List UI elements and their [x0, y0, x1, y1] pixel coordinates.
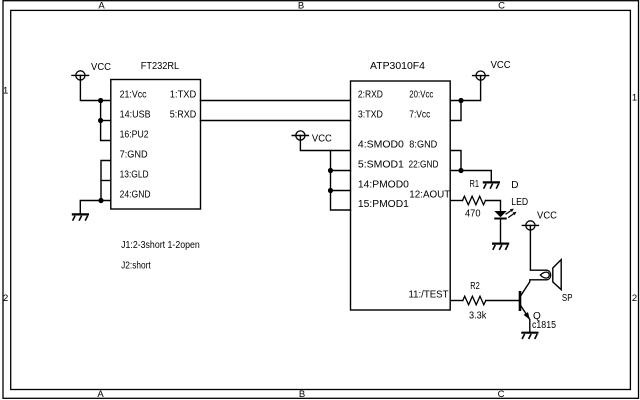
- power symbol VCC (left, for U1): [76, 71, 85, 80]
- svg-text:15:PMOD1: 15:PMOD1: [358, 199, 409, 210]
- wire VCC drop to 20:Vcc: [450, 76, 480, 101]
- junction dot U2 pin5 net: [328, 168, 333, 173]
- wire bracket 14:USB / 16:PU2 to VCC net: [101, 101, 111, 141]
- svg-text:VCC: VCC: [537, 211, 557, 222]
- svg-text:c1815: c1815: [532, 320, 556, 331]
- junction dot U2 pin20 net: [458, 98, 463, 103]
- svg-text:C: C: [498, 0, 505, 11]
- svg-text:5:SMOD1: 5:SMOD1: [358, 160, 404, 171]
- svg-text:3.3k: 3.3k: [469, 311, 487, 322]
- svg-text:1: 1: [632, 93, 637, 104]
- transistor Q1 emitter arrow: [524, 312, 530, 320]
- junction dot U2 pin22 net: [458, 168, 463, 173]
- svg-text:J1:2-3short 1-2open: J1:2-3short 1-2open: [121, 240, 200, 251]
- wire VCC drop to 4:SMOD0: [300, 136, 350, 151]
- svg-text:LED: LED: [511, 197, 528, 208]
- transistor Q1 base bar: [519, 291, 522, 311]
- transistor Q1 emitter wire: [521, 306, 530, 332]
- wire stub 5:SMOD1: [331, 170, 351, 172]
- LED D body triangle: [494, 211, 506, 217]
- resistor R1 zigzag: [463, 196, 486, 205]
- svg-text:20:Vcc: 20:Vcc: [409, 90, 433, 101]
- wire 8:GND stub: [450, 151, 461, 171]
- svg-text:2:RXD: 2:RXD: [358, 90, 383, 101]
- svg-text:J2:short: J2:short: [121, 261, 151, 272]
- svg-text:470: 470: [465, 208, 481, 219]
- speaker SP horn cone: [553, 260, 561, 290]
- svg-text:R1: R1: [470, 179, 480, 190]
- wire RXD net: U1 pin5 to U2 pin3: [201, 120, 351, 122]
- svg-text:24:GND: 24:GND: [120, 190, 151, 201]
- junction dot U1 pin24 net: [98, 198, 103, 203]
- svg-text:7:GND: 7:GND: [120, 150, 148, 161]
- power symbol VCC (middle, for U2 SMOD): [296, 131, 305, 140]
- wire R2 to Q base: [486, 300, 520, 302]
- svg-text:11:/TEST: 11:/TEST: [409, 290, 449, 301]
- svg-text:1: 1: [3, 86, 8, 97]
- speaker SP voice coil teardrop: [540, 272, 549, 278]
- svg-text:14:USB: 14:USB: [120, 110, 151, 121]
- junction dot U1 pin21 net: [98, 98, 103, 103]
- svg-text:SP: SP: [562, 293, 573, 304]
- wire VCC drop to speaker + terminal: [530, 225, 540, 270]
- svg-text:5:RXD: 5:RXD: [170, 110, 197, 121]
- wire R1 to LED anode: [486, 201, 501, 212]
- power symbol VCC (speaker): [526, 221, 535, 230]
- ground symbol (Q1 emitter): [521, 333, 538, 339]
- svg-text:2: 2: [3, 293, 8, 304]
- IC U2 ATP3010F4 box: [351, 81, 451, 310]
- ground symbol (below U1): [72, 214, 89, 220]
- wire 11:/TEST to R2: [450, 300, 463, 302]
- power symbol VCC (top right, for U2 Vcc pins): [476, 71, 485, 80]
- wire stub 14:USB: [101, 120, 111, 122]
- svg-text:A: A: [98, 0, 105, 11]
- wire VCC drop to 21:Vcc: [80, 75, 110, 100]
- wire 12:AOUT to R1: [450, 200, 462, 202]
- svg-text:B: B: [298, 0, 304, 11]
- ground symbol (below LED): [492, 244, 509, 250]
- svg-text:22:GND: 22:GND: [409, 160, 439, 171]
- wire 22:GND to ground: [450, 171, 491, 182]
- wire LED cathode to ground: [500, 219, 502, 243]
- svg-text:4:SMOD0: 4:SMOD0: [358, 140, 404, 151]
- wire stub 13:GLD: [101, 180, 111, 182]
- svg-text:2: 2: [632, 293, 637, 304]
- svg-text:14:PMOD0: 14:PMOD0: [358, 180, 409, 191]
- svg-text:3:TXD: 3:TXD: [358, 110, 383, 121]
- resistor R2 zigzag: [463, 296, 486, 305]
- svg-text:B: B: [299, 389, 305, 400]
- svg-text:FT232RL: FT232RL: [141, 61, 180, 72]
- junction dot U1 pin14 net: [98, 118, 103, 123]
- transistor Q1 collector wire to speaker - terminal: [521, 280, 541, 296]
- svg-text:12:AOUT: 12:AOUT: [409, 190, 450, 201]
- svg-text:7:Vcc: 7:Vcc: [409, 110, 430, 121]
- svg-text:1:TXD: 1:TXD: [170, 90, 197, 101]
- ground symbol (U2 GND pins): [483, 182, 500, 188]
- wire bracket 7:GND / 13:GLD / 24:GND: [101, 161, 111, 201]
- wire 24:GND to ground: [80, 201, 101, 214]
- svg-text:13:GLD: 13:GLD: [120, 170, 149, 181]
- wire TXD net: U1 pin1 to U2 pin2: [201, 100, 351, 102]
- wire stub 14:PMOD0: [331, 190, 351, 192]
- speaker SP driver box: [541, 270, 551, 280]
- wire bracket 5:SMOD1 / 14:PMOD0 / 15:PMOD1: [331, 151, 351, 211]
- LED D light arrow 2: [508, 212, 516, 218]
- LED D light arrow 1: [506, 209, 514, 215]
- junction dot U2 pin14 net: [328, 188, 333, 193]
- svg-text:R2: R2: [470, 281, 480, 292]
- svg-text:21:Vcc: 21:Vcc: [120, 90, 147, 101]
- svg-text:A: A: [97, 389, 104, 400]
- svg-text:ATP3010F4: ATP3010F4: [370, 61, 425, 72]
- svg-text:16:PU2: 16:PU2: [120, 130, 149, 141]
- svg-text:C: C: [498, 389, 505, 400]
- LED D cathode bar: [494, 218, 506, 220]
- svg-text:D: D: [511, 180, 518, 191]
- svg-text:VCC: VCC: [91, 62, 111, 73]
- wire bracket 7:Vcc: [450, 101, 461, 121]
- svg-text:VCC: VCC: [491, 60, 511, 71]
- svg-text:VCC: VCC: [312, 134, 332, 145]
- IC U1 FT232RL box: [111, 80, 201, 210]
- svg-text:8:GND: 8:GND: [409, 140, 437, 151]
